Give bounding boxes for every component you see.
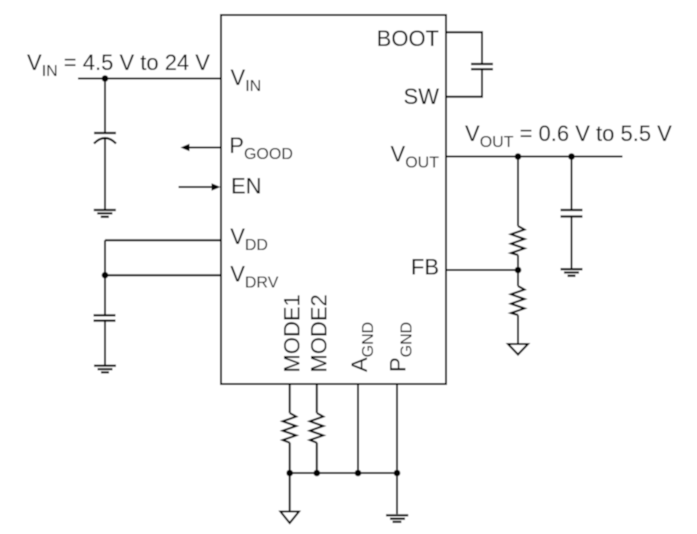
- wire VOUT cap top: [571, 157, 573, 211]
- capacitor C1 input: [94, 133, 116, 144]
- wire bus to analog gnd: [289, 473, 291, 512]
- resistor R1 feedback top: [511, 226, 525, 255]
- wire VOUT: [446, 156, 623, 158]
- wire to R1: [517, 157, 519, 227]
- junction bus MODE1: [286, 470, 293, 477]
- resistor R4 MODE2: [310, 413, 324, 443]
- wire AGND pin: [357, 384, 359, 473]
- wire input cap bottom: [104, 139, 106, 210]
- wire input cap top: [104, 79, 106, 134]
- wire EN arrow in: [179, 183, 221, 190]
- wire MODE1 pin: [289, 384, 291, 413]
- wire ground bus: [290, 472, 397, 474]
- svg-text:BOOT: BOOT: [377, 26, 439, 51]
- ground analog triangle bottom: [280, 512, 299, 524]
- capacitor C3 bootstrap: [471, 64, 493, 69]
- junction VOUT divider: [515, 153, 522, 160]
- wire MODE2 pin: [316, 384, 318, 413]
- wire VDD cap bottom: [104, 321, 106, 366]
- junction VOUT cap: [568, 153, 575, 160]
- capacitor C2 VDD bypass: [94, 315, 116, 320]
- wire R1 to FB: [517, 255, 519, 270]
- junction VDRV node: [102, 272, 109, 279]
- ground power earth: [386, 515, 408, 522]
- junction bus MODE2: [314, 470, 321, 477]
- wire SW to cap: [446, 69, 482, 97]
- junction FB node: [515, 267, 522, 274]
- wire PGOOD arrow out: [181, 144, 222, 151]
- wire VDD to VDRV: [104, 240, 106, 275]
- wire FB: [446, 269, 518, 271]
- wire VDD: [105, 239, 221, 241]
- junction bus PGND: [394, 470, 401, 477]
- svg-text:SW: SW: [404, 84, 440, 109]
- svg-text:EN: EN: [231, 174, 262, 199]
- resistor R3 MODE1: [283, 413, 297, 443]
- svg-text:FB: FB: [411, 254, 439, 279]
- wire VDRV: [105, 274, 221, 276]
- wire PGND pin: [396, 384, 398, 473]
- resistor R2 feedback bottom: [511, 286, 525, 315]
- wire VDD cap top: [104, 275, 106, 315]
- junction bus AGND: [355, 470, 362, 477]
- ground VDD earth: [94, 366, 116, 373]
- wire BOOT: [446, 32, 482, 64]
- svg-text:MODE2: MODE2: [307, 294, 332, 372]
- ground output earth: [561, 269, 583, 276]
- ground analog triangle FB: [508, 344, 528, 355]
- junction VIN node: [102, 75, 109, 82]
- wire VIN input: [78, 78, 221, 80]
- svg-text:MODE1: MODE1: [280, 294, 305, 372]
- wire VOUT cap bottom: [571, 217, 573, 270]
- wire R3 to bus: [289, 443, 291, 473]
- wire R2 to gnd: [517, 315, 519, 344]
- wire bus to power gnd: [396, 473, 398, 514]
- capacitor C4 output: [561, 210, 583, 217]
- wire FB to R2: [517, 270, 519, 286]
- wire R4 to bus: [316, 443, 318, 473]
- ground input earth: [94, 210, 116, 217]
- IC U1 buck converter body: [221, 15, 446, 384]
